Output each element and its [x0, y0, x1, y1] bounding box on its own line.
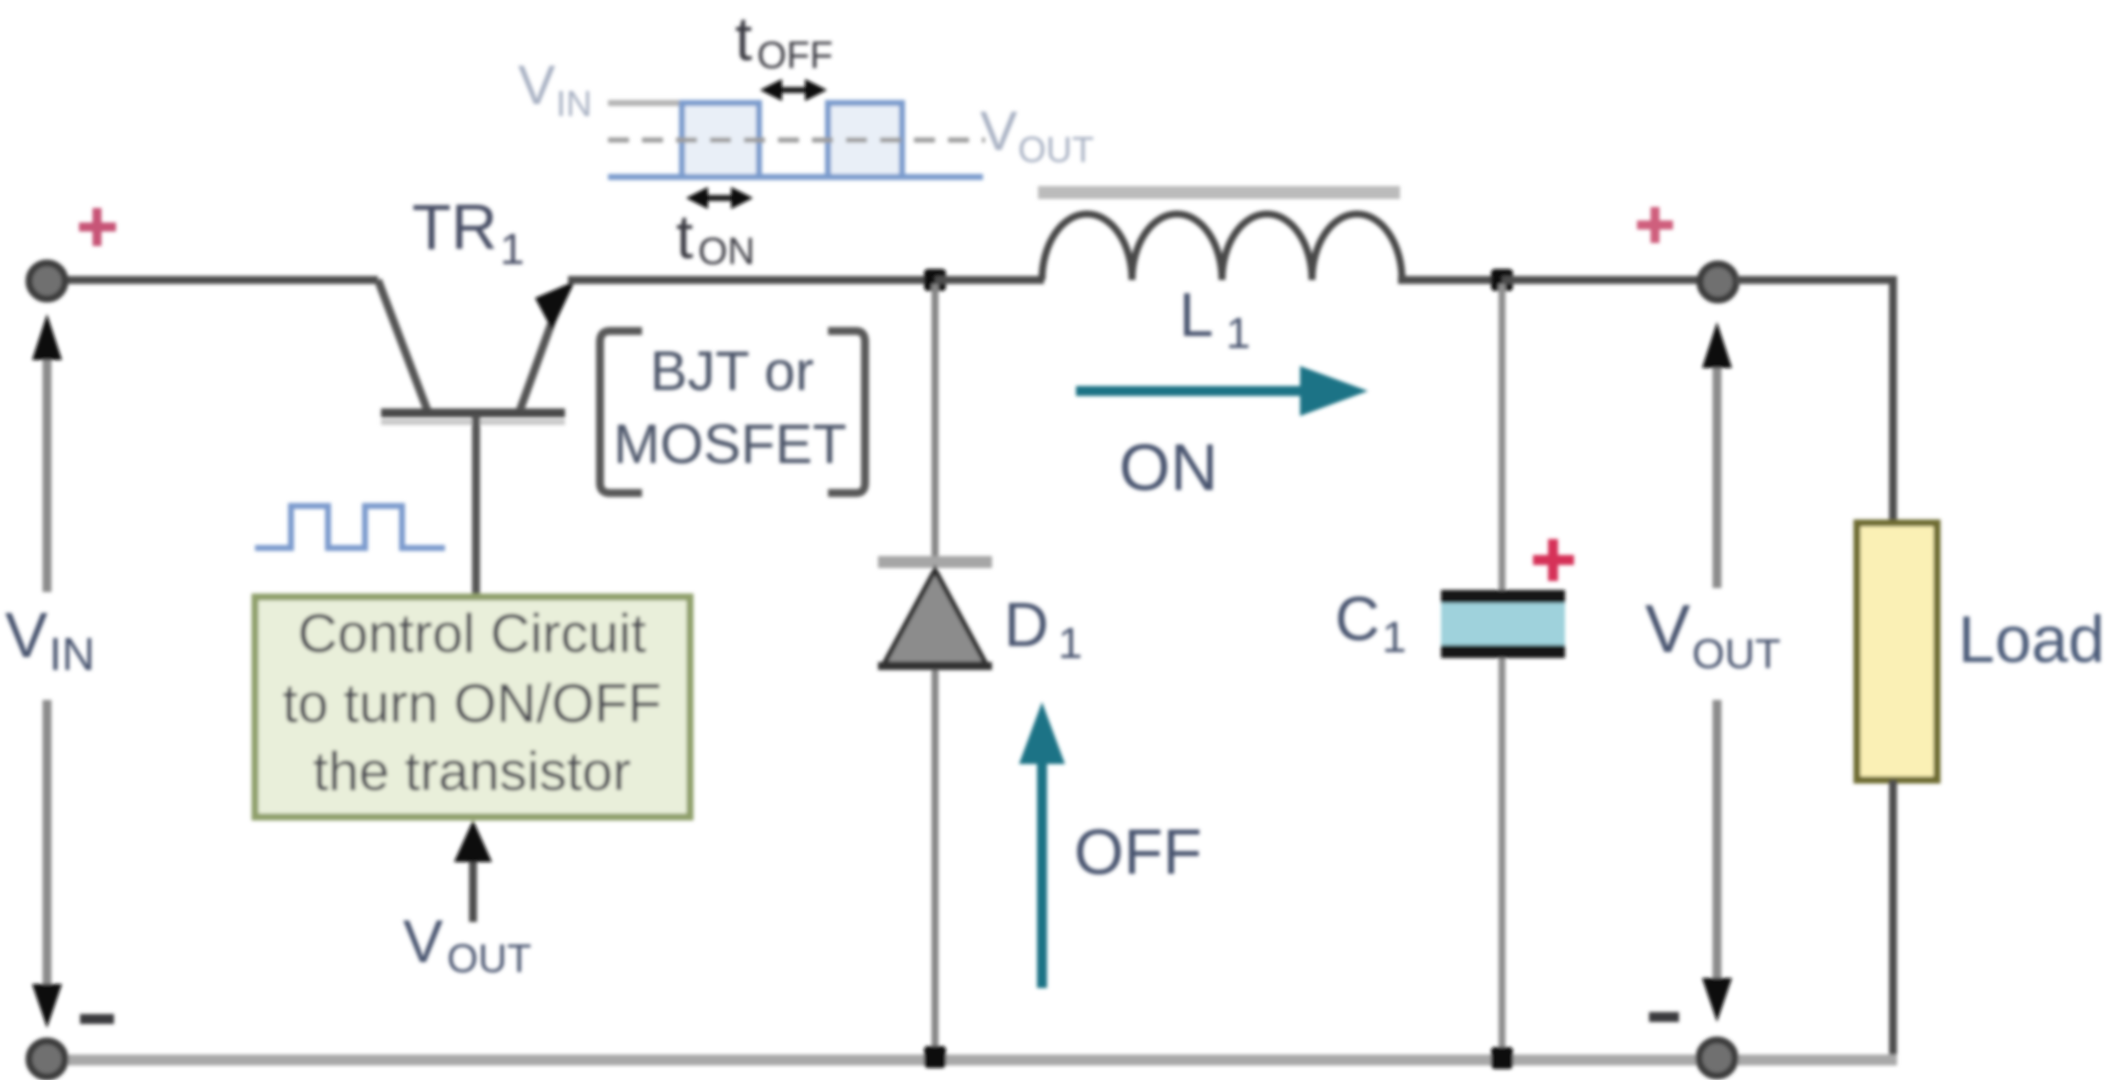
svg-text:1: 1 [1226, 309, 1250, 358]
transistor TR1 [378, 280, 428, 412]
wire top-left horizontal [62, 276, 378, 284]
node bottom-left terminal [29, 1041, 65, 1077]
svg-text:C: C [1335, 585, 1380, 654]
svg-text:to turn ON/OFF: to turn ON/OFF [283, 672, 662, 734]
V_IN measurement arrow line [43, 352, 52, 592]
wire inductor to cap junction [1398, 276, 1502, 284]
junction node diode bottom [924, 1046, 946, 1068]
wire to inductor [935, 276, 1044, 284]
svg-text:ON: ON [1119, 430, 1218, 504]
svg-text:Load: Load [1958, 602, 2105, 676]
inductor core bar [1038, 186, 1400, 199]
svg-text:OUT: OUT [1018, 129, 1094, 170]
svg-text:V: V [5, 599, 48, 671]
wire top after transistor [568, 276, 939, 284]
bottom rail [47, 1055, 1897, 1066]
node input + terminal [29, 263, 65, 299]
control circuit box [255, 597, 690, 817]
svg-text:t: t [676, 203, 693, 272]
diode D1 [932, 284, 939, 558]
plus sign output [1637, 207, 1673, 243]
svg-text:Control Circuit: Control Circuit [298, 602, 646, 664]
svg-text:V: V [980, 99, 1018, 162]
bracket right BJT/MOSFET [828, 331, 865, 493]
svg-text:MOSFET: MOSFET [613, 412, 846, 475]
svg-text:D: D [1004, 591, 1049, 660]
svg-text:1: 1 [1382, 613, 1406, 662]
wire corner down to load [1889, 276, 1897, 525]
load resistor [1857, 523, 1937, 780]
svg-text:L: L [1179, 281, 1213, 350]
waveform pulse 1 [682, 103, 759, 177]
wire load to bottom rail [1889, 780, 1897, 1058]
waveform low baseline segments [608, 174, 684, 180]
minus sign output [1649, 1012, 1679, 1022]
svg-text:OUT: OUT [447, 937, 531, 981]
svg-text:V: V [1645, 591, 1691, 667]
svg-text:OFF: OFF [1074, 816, 1202, 888]
t_ON measure arrow [700, 195, 739, 201]
junction node diode top [924, 269, 946, 291]
node output + terminal [1700, 264, 1736, 300]
plus sign capacitor [1533, 539, 1574, 581]
svg-text:V: V [518, 53, 556, 116]
svg-text:the transistor: the transistor [313, 740, 631, 802]
inductor L1 coil [1042, 214, 1402, 280]
svg-text:ON: ON [698, 231, 755, 273]
t_OFF measure arrow [774, 87, 813, 93]
node bottom-right terminal [1699, 1040, 1735, 1076]
waveform pulse 2 [828, 103, 902, 177]
svg-text:OFF: OFF [757, 35, 833, 77]
svg-text:1: 1 [1058, 619, 1082, 668]
svg-text:1: 1 [500, 225, 524, 274]
svg-text:OUT: OUT [1692, 630, 1781, 677]
minus sign input [80, 1014, 114, 1024]
V_OUT measurement arrow line [1713, 360, 1722, 588]
svg-text:t: t [735, 5, 752, 74]
capacitor C1 [1499, 284, 1506, 592]
OFF arrow [1037, 760, 1047, 988]
gate drive waveform symbol [255, 506, 445, 548]
waveform V_OUT dashed line [608, 138, 985, 143]
wire vout node to corner [1736, 276, 1893, 284]
bracket left BJT/MOSFET [600, 331, 642, 493]
waveform V_IN level line [608, 100, 680, 106]
plus sign input [79, 208, 116, 246]
junction node cap bottom [1491, 1047, 1513, 1069]
feedback arrow into control box [469, 856, 477, 922]
ON arrow [1076, 386, 1300, 396]
wire base to control box [472, 416, 480, 600]
wire junction to vout node [1502, 276, 1700, 284]
svg-text:IN: IN [556, 83, 592, 124]
svg-text:IN: IN [49, 628, 95, 680]
junction node cap top [1491, 269, 1513, 291]
svg-text:BJT or: BJT or [650, 339, 814, 402]
svg-text:V: V [403, 908, 443, 975]
svg-text:TR: TR [412, 191, 497, 263]
